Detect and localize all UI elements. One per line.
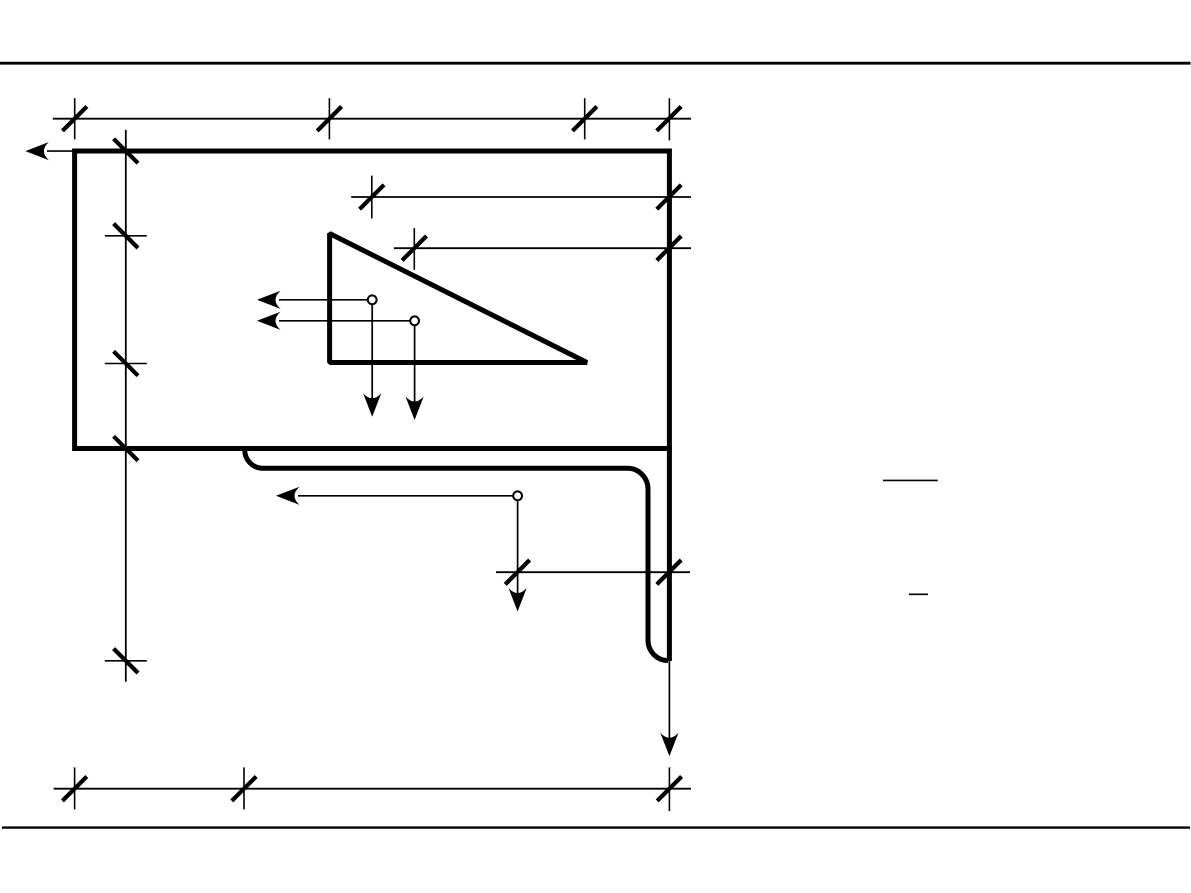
tick slash (669,572.2) — [657, 560, 681, 584]
bottom dimension line — [54, 788, 691, 790]
slab outline (thick rectangle) — [75, 151, 670, 449]
tick slash (414.3,248.2) — [402, 236, 426, 260]
arrowhead left 3 (276,495.8) — [276, 487, 300, 505]
corner leader line — [47, 150, 77, 152]
duct dimension line y572.2 — [496, 571, 690, 573]
duct profile curve — [245, 450, 668, 661]
tick slash (669,248.2) — [657, 236, 681, 260]
left dimension line — [125, 130, 127, 682]
fraction bar label 2 — [909, 593, 928, 595]
arrow shaft down 1 — [371, 304, 373, 400]
extension line x669.4 top — [668, 98, 670, 140]
tick cross line (125.8,660.8) — [105, 660, 147, 662]
tick slash (125.8,660.8) — [114, 649, 138, 673]
extension line x74.6 bottom — [74, 767, 76, 809]
circle node 3 — [513, 491, 522, 500]
arrow shaft left 1 — [279, 299, 368, 301]
arrowhead left 2 (257,320.8) — [257, 312, 281, 330]
extension line x329 top — [328, 98, 330, 139]
tick slash (371.8,197) — [360, 185, 384, 209]
arrowhead down 3 (517.6,611.5) — [508, 588, 526, 612]
extension line x371.8 — [371, 176, 373, 219]
top dimension line — [53, 118, 691, 120]
tick slash (669.4,788.7) — [657, 777, 681, 801]
right edge extension below slab — [667, 446, 672, 661]
tick slash (669,197) — [657, 185, 681, 209]
bottom border line — [2, 826, 1190, 828]
arrow shaft down right — [668, 661, 670, 740]
tick slash (125.8,151) — [114, 139, 138, 163]
circle node 2 — [410, 316, 419, 325]
fraction bar label 1 — [883, 479, 938, 481]
arrowhead left at corner (25.4,151.1) — [25, 142, 49, 160]
tick slash (584.7,118.7) — [573, 107, 597, 131]
extension line x75 top — [74, 98, 76, 139]
arrow shaft down 2 — [414, 325, 416, 403]
extension line x414.3 — [413, 228, 415, 270]
arrowhead down right (669.4,756.3) — [660, 733, 678, 757]
inner dimension line B y248.2 — [394, 247, 691, 249]
tick cross line (125.8,363.5) — [105, 363, 147, 365]
circle node 1 — [368, 295, 377, 304]
arrowhead left 1 (257,299.8) — [257, 291, 281, 309]
tick slash (517.4,572.2) — [505, 560, 529, 584]
tick slash (75,118.7) — [63, 107, 87, 131]
arrow shaft left 3 — [298, 495, 513, 497]
arrow shaft down 3 — [517, 500, 519, 595]
tick slash (125.8,235.8) — [114, 224, 138, 248]
arrow shaft left 2 — [279, 320, 410, 322]
tick slash (244,788.7) — [232, 777, 256, 801]
tick slash (329.4,118.7) — [317, 107, 341, 131]
extension line x244 bottom — [243, 767, 245, 809]
inner dimension line A y197 — [351, 196, 691, 198]
tick slash (74.6,788.7) — [62, 777, 86, 801]
tick slash (125.8,448.5) — [114, 436, 138, 460]
extension line x584.7 top — [584, 98, 586, 139]
arrowhead down 1 (372.2,416.7) — [363, 393, 381, 417]
tick cross line (125.8,235.8) — [105, 235, 147, 237]
tick slash (125.8,363.5) — [114, 351, 138, 375]
tick slash (668.9,118.7) — [657, 107, 681, 131]
extension line x669.4 bottom — [668, 767, 670, 811]
triangle load diagram — [330, 234, 587, 363]
arrowhead down 2 (414.6,420) — [406, 397, 424, 421]
top border line — [0, 62, 1191, 65]
